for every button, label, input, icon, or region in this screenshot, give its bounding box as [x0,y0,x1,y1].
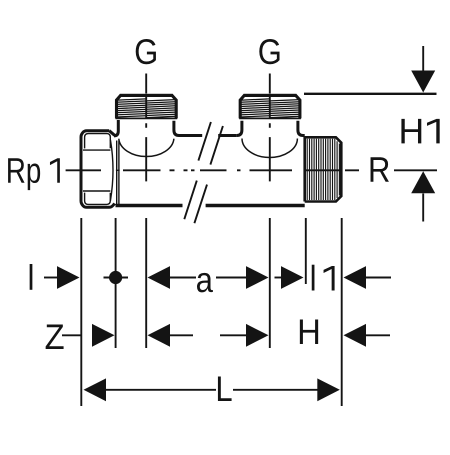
break mark slashes upper pair [198,122,223,165]
hex nut flat line upper [83,149,110,151]
label H [300,320,318,344]
body top edge segments [179,134,305,137]
branch 2 dome arc [242,139,297,158]
label a [197,273,213,293]
hex nut inner chamfer line top (pill) [85,134,111,149]
branch 1 thread bottom edge [116,117,178,119]
extension line D (branch 2 axis) [269,218,271,348]
hex nut right face curve [110,140,113,201]
right male thread R outline [305,137,342,201]
dimension a left arrow (tip at C) [148,266,171,289]
dimension a2 left arrow (tip at C) [148,324,171,347]
dimension l1 right arrow (tip at E) [344,266,367,289]
label Rp1 [8,158,60,190]
break mark slashes lower pair [184,181,207,224]
label G branch 1 [136,39,156,64]
label G branch 2 [259,39,279,64]
hex nut top-right chamfer to washer [109,131,114,136]
branch 2 thread hatching [240,99,300,118]
extension line E (right end of fitting) [341,218,343,406]
hex nut inner chamfer line bottom (pill) [85,193,111,205]
extension line C (branch 1 axis) [145,218,147,348]
branch 1 thread (male thread, hatched) outline [117,95,177,118]
branch 2 thread top edge [244,94,297,97]
H1 dimension lower arrow (up) [422,194,424,222]
label R [371,157,389,181]
dimension a right arrow (tip at D) [216,277,247,279]
branch 1 thread hatching [116,99,176,118]
branch 1 dome arc [119,139,174,157]
branch 1 right wall with fillet to body top [174,121,179,136]
extension line A (left end of fitting) [80,218,82,406]
H1 reference line at thread top level [304,93,437,95]
hex nut outer outline (union nut Rp1) [81,131,115,208]
label H1 [401,119,439,143]
centerline horizontal (dash-dot axis of body) [66,169,359,171]
washer lines [116,141,120,206]
H1 dimension upper arrow (down) [422,46,424,71]
branch 2 thread bottom edge [239,117,301,119]
branch 1 thread top edge [120,94,173,97]
H1 stub line at centerline level [394,169,437,171]
centerline vertical branch 2 (dash-dot) [269,74,271,182]
hex nut flat line lower [83,190,110,192]
dimension a2 right arrow (tip at D) [220,334,247,336]
dimension H right arrow (tip at E) [344,324,367,347]
label l1 [312,265,335,291]
extension line F (thread R start) [305,218,307,284]
dimension Z line to A [62,334,82,336]
label L [218,377,232,401]
dimension l dot terminator at B [104,277,129,279]
centerline vertical branch 1 (dash-dot) [145,74,147,182]
right male thread R hatching (vertical) [307,139,339,200]
body bottom edge segments [116,204,305,207]
dimension l1 left arrow (tip at F) [275,277,282,279]
extension line B (nut face) [115,218,117,348]
label Z (row 2) [46,325,64,349]
dimension L right arrow (tip at E) [233,389,318,391]
branch 2 thread (male thread, hatched) outline [240,95,300,118]
branch 2 right wall with fillet to body top [298,121,303,136]
label l (row 1) [30,264,33,290]
dimension l arrow (right, tip at A) [44,277,58,279]
dimension L left arrow (row 3, tip at A) [84,378,107,401]
branch 1 left wall with hook over nut [114,120,118,136]
dimension Z arrow (right, tip at B) [92,324,115,347]
branch 2 left wall with fillet to body top [237,121,242,136]
